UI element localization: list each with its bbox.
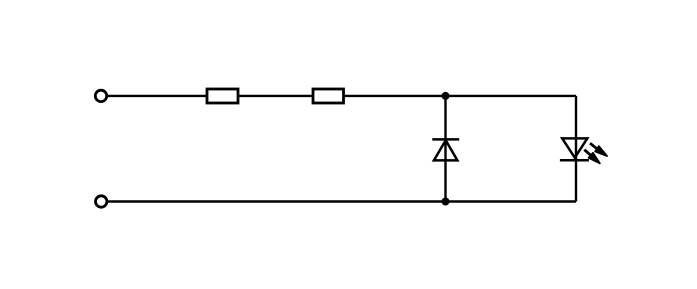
LED emission arrow 2 <box>584 150 600 164</box>
node B (bottom junction) <box>442 198 450 206</box>
resistor R2 <box>313 89 344 103</box>
LED emission arrow 1 <box>590 143 607 156</box>
LED D2 <box>560 138 589 160</box>
terminal bottom-left <box>96 196 107 207</box>
diode D1 <box>432 139 459 160</box>
wire top <box>108 95 577 97</box>
resistor R1 <box>207 89 238 103</box>
node A (top junction) <box>442 92 450 100</box>
wire bottom <box>108 200 576 202</box>
terminal top-left <box>95 90 106 101</box>
wire right vertical <box>575 96 577 202</box>
wire middle vertical <box>444 96 446 202</box>
